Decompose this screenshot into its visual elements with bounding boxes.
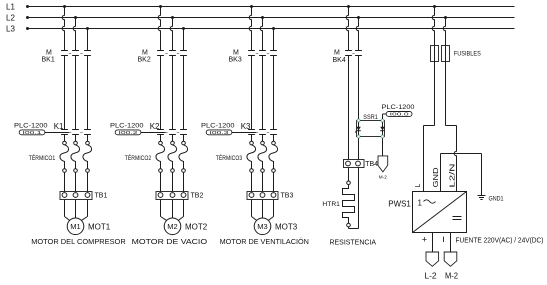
connector flag L-2 xyxy=(426,252,439,266)
motor M3 (MOT3) xyxy=(254,218,271,235)
svg-text:I00.1: I00.1 xyxy=(23,130,43,135)
label M-2 (flag) xyxy=(379,174,387,180)
pin label GND xyxy=(431,168,440,188)
label GND1 xyxy=(489,195,504,202)
wire fuse1 from L1 xyxy=(432,5,436,46)
wire SSR1 to TB4 xyxy=(358,138,360,159)
svg-text:MOT1: MOT1 xyxy=(88,223,111,232)
wires TB1 to motor M1 xyxy=(65,217,88,221)
svg-text:+: + xyxy=(422,235,427,245)
wire BK1 pole3 from L3 xyxy=(86,27,89,51)
svg-text:MOTOR DE VENTILACIÓN: MOTOR DE VENTILACIÓN xyxy=(220,237,309,246)
caption RESISTENCIA xyxy=(330,238,377,247)
contactor BK3 xyxy=(248,51,277,56)
caption MOTOR DE VENTILACIÓN xyxy=(220,237,309,246)
label L2 xyxy=(6,14,15,23)
connector flag M-2 xyxy=(444,252,457,266)
motor M1 (MOT1) xyxy=(67,218,84,235)
wires TB2 to motor M2 xyxy=(161,217,184,221)
fuse F2 xyxy=(442,46,450,62)
wire BK2 pole3 from L3 xyxy=(182,27,185,51)
power supply PWS1 xyxy=(413,192,467,233)
svg-text:M3: M3 xyxy=(257,222,267,231)
label TÉRMICO2 xyxy=(125,153,152,162)
label MOT3 xyxy=(275,223,298,232)
svg-text:GND: GND xyxy=(431,168,440,188)
terminal block TB4 xyxy=(344,160,365,168)
svg-text:PWS1: PWS1 xyxy=(388,199,411,208)
svg-text:L1: L1 xyxy=(6,3,15,12)
wire PWS1 GND pin to GND1 xyxy=(441,154,482,196)
wire - to M-2 flag xyxy=(450,233,452,253)
pin label L2/N xyxy=(448,164,457,188)
svg-text:M: M xyxy=(142,49,148,56)
label M BK2 xyxy=(138,49,151,63)
wire fuse2 to PWS1 pin L2/N xyxy=(446,62,457,192)
bus L1 xyxy=(26,5,515,8)
svg-text:BK3: BK3 xyxy=(229,56,242,63)
net tag I00.0 xyxy=(383,112,413,119)
svg-text:TB4: TB4 xyxy=(365,161,378,168)
contactor BK1 xyxy=(61,51,91,56)
label M BK4 xyxy=(333,49,346,64)
wire poles BK2 to K2 xyxy=(161,56,184,130)
wire BK4 pole2 to SSR1 xyxy=(358,56,360,120)
wire HTR1 return to TB4 xyxy=(349,168,359,229)
svg-text:TB2: TB2 xyxy=(191,193,204,200)
svg-text:L3: L3 xyxy=(6,25,15,34)
pin label L xyxy=(415,184,422,188)
wire BK4 pole2 from L2 xyxy=(356,16,360,51)
PLC-1200 label (SSR) xyxy=(382,104,415,111)
svg-text:M: M xyxy=(46,49,52,56)
svg-text:PLC-1200: PLC-1200 xyxy=(382,104,415,111)
wire BK1 pole2 from L2 xyxy=(73,16,77,51)
svg-text:M-2: M-2 xyxy=(379,174,387,180)
label TÉRMICO3 xyxy=(216,153,243,162)
wire BK4 pole1 from L1 xyxy=(346,5,350,51)
label MOT2 xyxy=(185,223,208,232)
terminal block TB3 xyxy=(247,192,278,217)
wire BK2 pole2 from L2 xyxy=(170,16,174,51)
label TB1 xyxy=(95,193,108,200)
label K1 xyxy=(54,122,64,131)
label L-2 xyxy=(425,272,438,281)
caption MOTOR DE VACIO xyxy=(132,237,207,246)
label L1 xyxy=(6,3,15,12)
svg-text:FUENTE 220V(AC) / 24V(DC): FUENTE 220V(AC) / 24V(DC) xyxy=(456,235,544,244)
wire BK3 pole1 from L1 xyxy=(249,5,253,51)
label TÉRMICO1 xyxy=(29,153,56,162)
svg-text:BK1: BK1 xyxy=(42,56,55,63)
svg-text:M: M xyxy=(334,49,340,56)
svg-text:TB1: TB1 xyxy=(95,193,108,200)
contactor BK2 xyxy=(157,51,187,56)
svg-text:MOTOR DE VACIO: MOTOR DE VACIO xyxy=(132,237,207,246)
svg-text:MOT2: MOT2 xyxy=(185,223,208,232)
wires TB3 to motor M3 xyxy=(252,217,274,221)
terminal block TB1 xyxy=(60,192,92,217)
svg-text:SSR1: SSR1 xyxy=(363,114,378,121)
label FUENTE 220V(AC) / 24V(DC) xyxy=(456,235,544,244)
svg-text:M1: M1 xyxy=(70,222,80,231)
svg-text:BK4: BK4 xyxy=(333,57,346,64)
connector flag M-2 (SSR return) xyxy=(378,156,388,172)
wire poles BK3 to K3 xyxy=(252,56,274,130)
svg-text:PLC-1200: PLC-1200 xyxy=(110,123,144,130)
svg-text:PLC-1200: PLC-1200 xyxy=(201,123,235,130)
bus L2 xyxy=(26,16,515,19)
PLC contact K1 xyxy=(61,130,91,135)
svg-text:FUSIBLES: FUSIBLES xyxy=(454,51,481,58)
svg-text:TÉRMICO1: TÉRMICO1 xyxy=(29,153,56,162)
label FUSIBLES xyxy=(454,51,481,58)
svg-text:I00.0: I00.0 xyxy=(390,112,410,117)
PLC contact K2 xyxy=(157,130,187,135)
label M BK3 xyxy=(229,49,242,63)
caption MOTOR DEL COMPRESOR xyxy=(31,237,126,246)
label MOT1 xyxy=(88,223,111,232)
svg-text:L-2: L-2 xyxy=(425,272,438,280)
label TB4 xyxy=(365,161,378,168)
svg-text:HTR1: HTR1 xyxy=(322,201,340,208)
wire BK1 pole1 from L1 xyxy=(62,5,66,51)
wire fuse2 from L2 xyxy=(443,16,447,46)
thermal overload TÉRMICO3 xyxy=(247,135,278,192)
label + terminal xyxy=(422,235,427,245)
svg-text:L2/N: L2/N xyxy=(448,164,457,188)
solid state relay SSR1 xyxy=(355,119,385,138)
svg-text:I00.3: I00.3 xyxy=(210,130,230,135)
wire BK2 pole1 from L1 xyxy=(158,5,162,51)
svg-text:GND1: GND1 xyxy=(489,195,504,202)
svg-text:M2: M2 xyxy=(167,222,177,231)
PLC-1200 label (K1) xyxy=(14,123,48,130)
PLC-1200 label (K2) xyxy=(110,123,144,130)
wire TB4 to HTR1 xyxy=(348,168,350,182)
label HTR1 xyxy=(322,201,340,208)
PLC contact K3 xyxy=(248,130,277,135)
contactor BK4 xyxy=(345,51,362,56)
label TB3 xyxy=(281,193,294,200)
motor M2 (MOT2) xyxy=(164,218,181,235)
label K3 xyxy=(241,122,251,131)
wire BK3 pole3 from L3 xyxy=(272,27,275,51)
label PWS1 xyxy=(388,199,411,208)
svg-text:L: L xyxy=(415,184,422,188)
label - terminal xyxy=(443,237,445,242)
label M-2 xyxy=(445,272,459,281)
PLC-1200 label (K3) xyxy=(201,123,235,130)
svg-text:M-2: M-2 xyxy=(445,272,459,280)
svg-text:MOTOR DEL COMPRESOR: MOTOR DEL COMPRESOR xyxy=(31,237,126,246)
net tag I00.3 xyxy=(206,130,257,135)
wire BK3 pole2 from L2 xyxy=(260,16,264,51)
net tag I00.2 xyxy=(115,130,166,135)
svg-text:TÉRMICO2: TÉRMICO2 xyxy=(125,153,152,162)
svg-text:MOT3: MOT3 xyxy=(275,223,298,232)
svg-text:PLC-1200: PLC-1200 xyxy=(14,123,48,130)
terminal block TB2 xyxy=(156,192,188,217)
svg-text:BK2: BK2 xyxy=(138,56,151,63)
wire fuse1 to PWS1 pin L xyxy=(424,62,435,192)
wire BK4 pole1 to TB4 xyxy=(348,56,350,160)
label L3 xyxy=(6,25,15,34)
fuse F1 xyxy=(431,46,439,62)
heater HTR1 xyxy=(343,181,355,227)
wire SSR1 out to M-2 flag xyxy=(382,138,384,156)
label K2 xyxy=(150,122,160,131)
label TB2 xyxy=(191,193,204,200)
svg-text:I00.2: I00.2 xyxy=(119,130,139,135)
label M BK1 xyxy=(42,49,55,63)
svg-text:M: M xyxy=(233,49,239,56)
svg-text:1: 1 xyxy=(418,198,423,207)
net tag I00.1 xyxy=(19,130,70,135)
svg-text:TÉRMICO3: TÉRMICO3 xyxy=(216,153,243,162)
ground GND1 xyxy=(478,196,486,200)
label SSR1 xyxy=(363,114,378,121)
thermal overload TÉRMICO2 xyxy=(156,135,188,192)
wire poles BK1 to K1 xyxy=(65,56,88,130)
bus L3 xyxy=(26,27,515,30)
svg-text:L2: L2 xyxy=(6,14,15,23)
thermal overload TÉRMICO1 xyxy=(60,135,92,192)
svg-text:RESISTENCIA: RESISTENCIA xyxy=(330,238,377,247)
svg-text:TB3: TB3 xyxy=(281,193,294,200)
wire + to L-2 flag xyxy=(432,233,434,253)
